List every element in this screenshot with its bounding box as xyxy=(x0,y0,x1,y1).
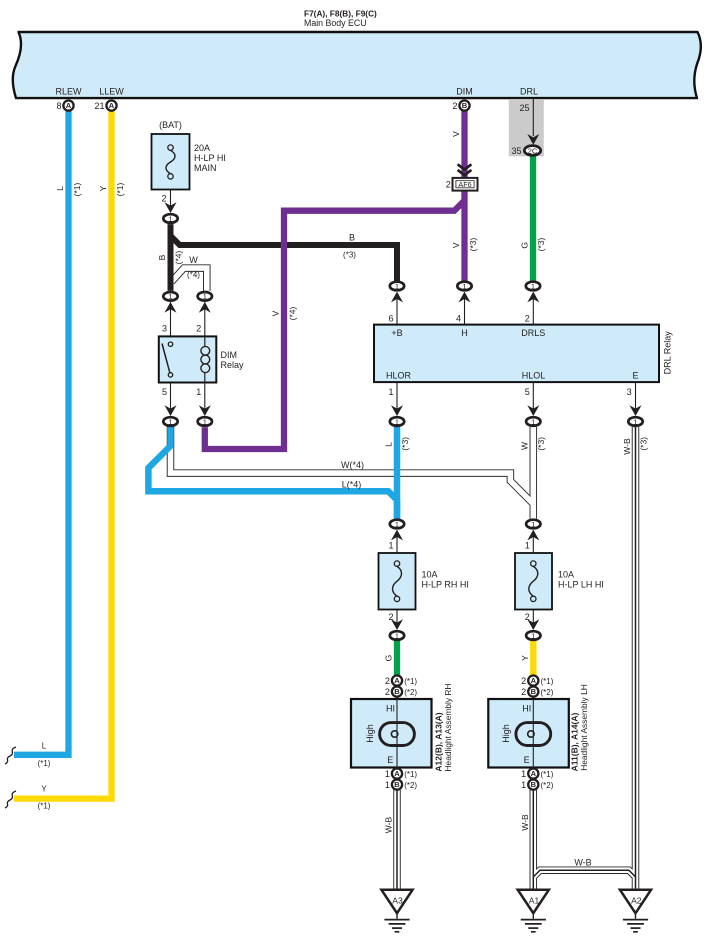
svg-text:Y: Y xyxy=(41,785,47,794)
svg-text:(*1): (*1) xyxy=(541,770,554,779)
svg-text:3: 3 xyxy=(162,324,167,334)
svg-text:2: 2 xyxy=(161,194,166,204)
svg-text:(*4): (*4) xyxy=(187,271,200,280)
svg-text:1: 1 xyxy=(525,541,530,551)
svg-text:1: 1 xyxy=(395,417,399,426)
svg-text:AF6: AF6 xyxy=(458,180,471,189)
svg-text:(*3): (*3) xyxy=(536,437,546,451)
svg-text:V: V xyxy=(451,242,461,248)
svg-text:V: V xyxy=(451,131,461,137)
svg-text:(BAT): (BAT) xyxy=(159,120,182,130)
svg-text:A12(B), A13(A): A12(B), A13(A) xyxy=(433,712,443,771)
svg-text:W-B: W-B xyxy=(384,816,394,833)
svg-text:1: 1 xyxy=(462,282,466,291)
svg-text:5: 5 xyxy=(525,387,530,397)
svg-text:DRL Relay: DRL Relay xyxy=(662,331,672,375)
svg-text:HLOL: HLOL xyxy=(522,371,546,381)
svg-text:High: High xyxy=(501,724,511,743)
svg-text:E: E xyxy=(387,755,393,765)
svg-text:1: 1 xyxy=(388,387,393,397)
svg-text:F7(A), F8(B), F9(C): F7(A), F8(B), F9(C) xyxy=(304,9,377,19)
svg-text:(*2): (*2) xyxy=(541,781,554,790)
svg-text:1: 1 xyxy=(168,214,172,223)
svg-text:(*3): (*3) xyxy=(468,237,478,251)
svg-text:1: 1 xyxy=(531,631,535,640)
svg-text:1: 1 xyxy=(531,520,535,529)
svg-text:1: 1 xyxy=(395,631,399,640)
svg-text:Y: Y xyxy=(98,185,108,191)
svg-text:Headlight Assembly RH: Headlight Assembly RH xyxy=(443,684,453,772)
svg-text:2: 2 xyxy=(521,676,526,686)
svg-text:V: V xyxy=(271,310,281,316)
svg-text:G: G xyxy=(520,242,530,249)
svg-text:1: 1 xyxy=(521,780,526,790)
svg-text:A1: A1 xyxy=(529,896,540,906)
svg-text:LLEW: LLEW xyxy=(99,87,124,97)
svg-text:(*3): (*3) xyxy=(638,437,648,451)
svg-text:W-B: W-B xyxy=(574,858,591,868)
svg-text:L(*4): L(*4) xyxy=(342,480,362,490)
svg-text:(*2): (*2) xyxy=(404,781,417,790)
svg-text:W: W xyxy=(520,442,530,450)
svg-text:1: 1 xyxy=(395,520,399,529)
svg-text:Main Body ECU: Main Body ECU xyxy=(304,18,367,28)
svg-text:1: 1 xyxy=(385,780,390,790)
svg-text:A2: A2 xyxy=(631,896,642,906)
svg-text:(*3): (*3) xyxy=(343,251,356,260)
svg-text:(*1): (*1) xyxy=(404,677,417,686)
svg-text:High: High xyxy=(365,724,375,743)
svg-text:1: 1 xyxy=(385,769,390,779)
svg-text:10A: 10A xyxy=(558,570,574,580)
svg-text:(*1): (*1) xyxy=(38,802,51,811)
svg-text:2: 2 xyxy=(385,687,390,697)
svg-text:L: L xyxy=(384,442,394,447)
svg-text:A: A xyxy=(394,769,400,778)
svg-text:L: L xyxy=(55,186,65,191)
svg-text:B: B xyxy=(394,687,400,696)
svg-text:DIM: DIM xyxy=(456,87,473,97)
svg-text:DIM: DIM xyxy=(221,350,238,360)
svg-text:(*1): (*1) xyxy=(72,182,82,196)
svg-text:1: 1 xyxy=(395,282,399,291)
svg-text:2: 2 xyxy=(385,676,390,686)
svg-text:2C: 2C xyxy=(528,146,538,155)
svg-text:(*1): (*1) xyxy=(404,770,417,779)
svg-text:A: A xyxy=(531,676,537,685)
svg-text:DRL: DRL xyxy=(520,87,538,97)
svg-text:G: G xyxy=(384,655,394,662)
svg-text:8: 8 xyxy=(56,101,61,111)
svg-text:H-LP RH HI: H-LP RH HI xyxy=(422,580,469,590)
svg-text:A3: A3 xyxy=(392,896,403,906)
svg-text:2: 2 xyxy=(525,612,530,622)
svg-text:Headlight Assembly LH: Headlight Assembly LH xyxy=(579,684,589,771)
svg-text:HI: HI xyxy=(386,704,395,714)
svg-text:2: 2 xyxy=(525,314,530,324)
svg-text:DRLS: DRLS xyxy=(521,328,545,338)
svg-text:21: 21 xyxy=(94,101,104,111)
svg-text:(*1): (*1) xyxy=(541,677,554,686)
svg-text:B: B xyxy=(157,254,167,260)
svg-text:H-LP HI: H-LP HI xyxy=(194,153,226,163)
svg-text:2: 2 xyxy=(388,612,393,622)
svg-text:1: 1 xyxy=(196,387,201,397)
svg-text:B: B xyxy=(531,780,537,789)
svg-text:A: A xyxy=(109,101,115,110)
svg-text:2: 2 xyxy=(452,101,457,111)
svg-text:20A: 20A xyxy=(194,143,210,153)
svg-text:(*3): (*3) xyxy=(400,437,410,451)
svg-text:W(*4): W(*4) xyxy=(341,460,364,470)
svg-text:B: B xyxy=(462,101,468,110)
svg-text:2: 2 xyxy=(446,180,451,190)
svg-text:3: 3 xyxy=(627,387,632,397)
svg-text:B: B xyxy=(394,780,400,789)
svg-text:H: H xyxy=(461,328,468,338)
svg-text:(*4): (*4) xyxy=(174,250,184,264)
svg-text:25: 25 xyxy=(519,103,529,113)
svg-text:H-LP LH HI: H-LP LH HI xyxy=(558,580,604,590)
svg-text:E: E xyxy=(524,755,530,765)
svg-text:(*4): (*4) xyxy=(288,306,298,320)
svg-text:2: 2 xyxy=(196,324,201,334)
svg-text:+B: +B xyxy=(391,328,402,338)
svg-text:(*2): (*2) xyxy=(541,688,554,697)
svg-text:1: 1 xyxy=(168,417,172,426)
svg-text:Y: Y xyxy=(520,655,530,661)
svg-text:A: A xyxy=(531,769,537,778)
svg-text:1: 1 xyxy=(203,417,207,426)
svg-text:(*3): (*3) xyxy=(536,237,546,251)
svg-text:B: B xyxy=(349,233,355,243)
svg-text:(*2): (*2) xyxy=(404,688,417,697)
svg-text:A11(B), A14(A): A11(B), A14(A) xyxy=(570,712,580,771)
svg-text:1: 1 xyxy=(531,282,535,291)
svg-text:6: 6 xyxy=(388,314,393,324)
svg-text:(*1): (*1) xyxy=(115,182,125,196)
svg-text:W: W xyxy=(189,255,198,265)
svg-text:L: L xyxy=(42,742,47,751)
svg-text:1: 1 xyxy=(203,292,207,301)
svg-text:A: A xyxy=(66,101,72,110)
svg-text:35: 35 xyxy=(511,146,521,156)
svg-text:W-B: W-B xyxy=(622,438,632,455)
svg-text:2: 2 xyxy=(521,687,526,697)
svg-text:HLOR: HLOR xyxy=(386,371,412,381)
svg-text:1: 1 xyxy=(388,541,393,551)
svg-text:W-B: W-B xyxy=(520,814,530,831)
svg-text:A: A xyxy=(394,676,400,685)
svg-text:HI: HI xyxy=(522,704,531,714)
svg-text:1: 1 xyxy=(633,417,637,426)
svg-text:(*1): (*1) xyxy=(38,759,51,768)
svg-text:10A: 10A xyxy=(422,570,438,580)
svg-text:B: B xyxy=(531,687,537,696)
svg-text:RLEW: RLEW xyxy=(55,87,82,97)
svg-text:5: 5 xyxy=(162,387,167,397)
svg-text:1: 1 xyxy=(521,769,526,779)
svg-text:MAIN: MAIN xyxy=(194,163,217,173)
svg-text:4: 4 xyxy=(456,314,461,324)
svg-text:Relay: Relay xyxy=(221,360,245,370)
svg-text:1: 1 xyxy=(531,417,535,426)
svg-text:1: 1 xyxy=(168,292,172,301)
svg-text:E: E xyxy=(632,371,638,381)
